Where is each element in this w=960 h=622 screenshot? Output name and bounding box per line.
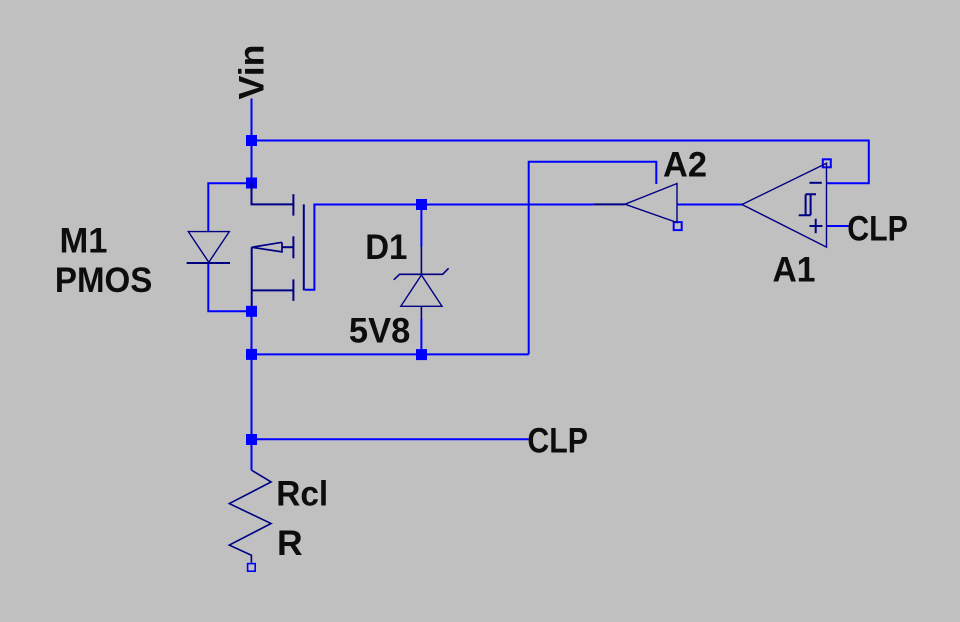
svg-text:A1: A1 [773,249,816,289]
svg-text:CLP: CLP [847,208,908,248]
svg-text:R: R [277,523,303,563]
svg-text:D1: D1 [365,227,407,267]
svg-text:PMOS: PMOS [55,260,152,300]
svg-text:5V8: 5V8 [349,311,410,351]
svg-text:CLP: CLP [527,421,588,461]
svg-text:M1: M1 [60,221,108,261]
svg-text:Vin: Vin [232,45,272,100]
svg-text:Rcl: Rcl [276,474,328,514]
svg-text:A2: A2 [663,145,707,185]
